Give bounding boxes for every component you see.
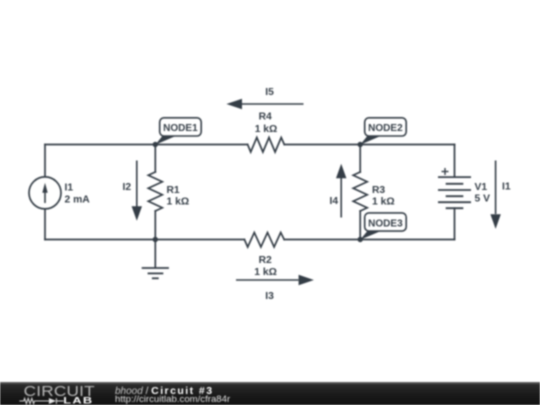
node ground junction dot bbox=[153, 237, 158, 242]
svg-text:NODE1: NODE1 bbox=[163, 123, 198, 134]
node NODE2 callout bbox=[360, 118, 406, 145]
footer bar bbox=[0, 382, 540, 405]
resistor R3 bbox=[353, 172, 367, 211]
node C junction dot (NODE3) bbox=[358, 237, 363, 242]
svg-text:I1: I1 bbox=[502, 182, 511, 193]
resistor R1 bbox=[148, 172, 162, 211]
node NODE3 callout bbox=[360, 213, 406, 240]
footer title text bbox=[115, 386, 214, 397]
svg-text:V1: V1 bbox=[475, 182, 488, 193]
current arrow I1 (right) bbox=[490, 161, 500, 229]
svg-text:R1: R1 bbox=[167, 185, 180, 196]
wire bottom-right horizontal bbox=[284, 239, 454, 241]
voltage source V1 plates bbox=[438, 177, 471, 208]
resistor R4 bbox=[248, 138, 285, 153]
resistor R2 bbox=[244, 233, 284, 248]
svg-text:5 V: 5 V bbox=[475, 194, 491, 205]
wire top-right horizontal (R4 right to battery) bbox=[284, 144, 454, 146]
node NODE1 callout bbox=[155, 118, 201, 145]
svg-text:NODE2: NODE2 bbox=[368, 123, 403, 134]
wire bottom-left horizontal bbox=[45, 239, 244, 241]
V1 plus sign bbox=[442, 168, 449, 175]
svg-text:1 kΩ: 1 kΩ bbox=[167, 197, 190, 208]
current source I1 arrow bbox=[42, 183, 47, 203]
wire top-left horizontal (node A to R4 left) bbox=[45, 144, 248, 146]
current arrow I3 bbox=[236, 275, 314, 285]
CircuitLab logo bbox=[0, 382, 100, 405]
svg-text:I1: I1 bbox=[65, 183, 74, 194]
node A junction dot (NODE1) bbox=[153, 142, 158, 147]
wire left rail upper bbox=[44, 145, 46, 178]
current source I1 circle bbox=[29, 177, 61, 209]
wire R3 rail lower bbox=[359, 211, 361, 240]
svg-text:I5: I5 bbox=[265, 87, 274, 98]
current arrow I2 bbox=[132, 161, 142, 221]
svg-text:1 kΩ: 1 kΩ bbox=[254, 267, 277, 278]
wire R3 rail upper bbox=[359, 145, 361, 173]
wire left rail lower bbox=[44, 209, 46, 240]
wire R1 rail lower bbox=[154, 211, 156, 240]
wire battery rail upper bbox=[454, 145, 456, 178]
svg-text:I4: I4 bbox=[330, 196, 339, 207]
svg-text:R4: R4 bbox=[259, 112, 272, 123]
current arrow I4 bbox=[336, 164, 346, 218]
node B junction dot (NODE2) bbox=[358, 142, 363, 147]
svg-text:1 kΩ: 1 kΩ bbox=[372, 197, 395, 208]
svg-text:1 kΩ: 1 kΩ bbox=[255, 124, 278, 135]
svg-text:LAB: LAB bbox=[63, 396, 93, 405]
wire R1 rail upper bbox=[154, 145, 156, 173]
ground bbox=[142, 240, 169, 279]
current arrow I5 bbox=[226, 99, 303, 109]
svg-text:NODE3: NODE3 bbox=[368, 218, 403, 229]
svg-text:I3: I3 bbox=[265, 291, 274, 302]
svg-text:R3: R3 bbox=[372, 185, 385, 196]
svg-text:I2: I2 bbox=[123, 182, 132, 193]
wire battery rail lower bbox=[454, 208, 456, 239]
svg-text:R2: R2 bbox=[259, 255, 272, 266]
svg-text:2 mA: 2 mA bbox=[65, 195, 91, 206]
